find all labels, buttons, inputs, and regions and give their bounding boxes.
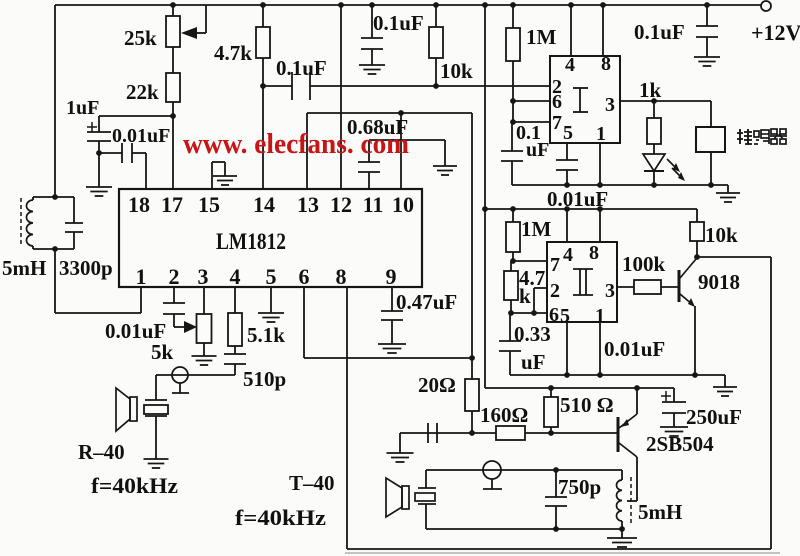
svg-text:0.01uF: 0.01uF [604,337,665,361]
svg-text:f=40kHz: f=40kHz [235,505,326,530]
svg-text:0.1uF: 0.1uF [276,56,327,80]
svg-text:1M: 1M [521,217,552,241]
svg-text:14: 14 [253,192,275,217]
svg-text:LM1812: LM1812 [216,229,286,254]
svg-text:5: 5 [563,122,573,144]
svg-text:0.01uF: 0.01uF [547,187,608,211]
svg-text:6: 6 [549,304,559,326]
svg-text:0.1uF: 0.1uF [634,20,685,44]
svg-text:20Ω: 20Ω [418,373,456,397]
svg-text:3300p: 3300p [59,256,113,280]
svg-text:10k: 10k [440,59,473,83]
svg-text:5k: 5k [151,340,174,364]
svg-text:6: 6 [299,264,310,289]
svg-text:1uF: 1uF [66,97,99,119]
svg-text:0.47uF: 0.47uF [396,290,457,314]
svg-text:10: 10 [392,192,414,217]
svg-text:17: 17 [161,192,183,217]
svg-text:250uF: 250uF [686,405,742,429]
svg-text:4: 4 [563,244,573,266]
svg-text:3: 3 [605,94,615,116]
svg-text:1k: 1k [639,78,662,102]
svg-text:9018: 9018 [698,270,740,294]
svg-text:0.1uF: 0.1uF [373,11,424,35]
svg-text:5: 5 [560,305,570,327]
svg-text:2: 2 [169,264,180,289]
svg-text:+12V: +12V [751,20,800,45]
svg-text:0.01uF: 0.01uF [112,125,170,147]
svg-text:4.7k: 4.7k [214,41,252,65]
svg-text:www. elecfans. com: www. elecfans. com [183,129,409,160]
svg-text:160Ω: 160Ω [480,403,528,427]
svg-text:10k: 10k [705,223,738,247]
svg-text:8: 8 [601,53,611,75]
svg-text:uF: uF [526,139,549,161]
svg-text:9: 9 [386,264,397,289]
svg-text:18: 18 [128,192,150,217]
svg-text:12: 12 [330,192,352,217]
svg-text:1: 1 [596,123,606,145]
svg-text:6: 6 [552,91,562,113]
svg-text:5mH: 5mH [638,500,682,524]
svg-text:T–40: T–40 [289,471,335,495]
svg-text:4: 4 [565,54,575,76]
svg-text:2SB504: 2SB504 [646,432,714,456]
svg-text:f=40kHz: f=40kHz [91,473,178,498]
svg-text:750p: 750p [558,475,601,499]
svg-text:R–40: R–40 [78,440,125,464]
svg-text:1M: 1M [526,25,557,49]
svg-text:1: 1 [595,305,605,327]
svg-text:k: k [519,284,531,308]
svg-text:0.33: 0.33 [514,322,551,346]
svg-text:510p: 510p [243,367,286,391]
svg-text:3: 3 [605,280,615,302]
svg-text:510 Ω: 510 Ω [560,393,614,417]
svg-text:25k: 25k [124,26,157,50]
svg-text:8: 8 [589,242,599,264]
svg-text:3: 3 [198,264,209,289]
svg-text:8: 8 [336,264,347,289]
svg-text:22k: 22k [126,80,159,104]
svg-text:5.1k: 5.1k [247,323,285,347]
svg-text:7: 7 [550,254,560,276]
svg-text:11: 11 [363,192,384,217]
svg-text:7: 7 [552,112,562,134]
svg-text:4: 4 [230,264,241,289]
svg-text:5: 5 [266,264,277,289]
svg-text:2: 2 [550,280,560,302]
svg-text:100k: 100k [622,252,666,276]
svg-text:13: 13 [297,192,319,217]
svg-text:1: 1 [136,264,147,289]
svg-text:uF: uF [521,350,546,374]
svg-text:5mH: 5mH [2,256,46,280]
svg-text:15: 15 [198,192,220,217]
